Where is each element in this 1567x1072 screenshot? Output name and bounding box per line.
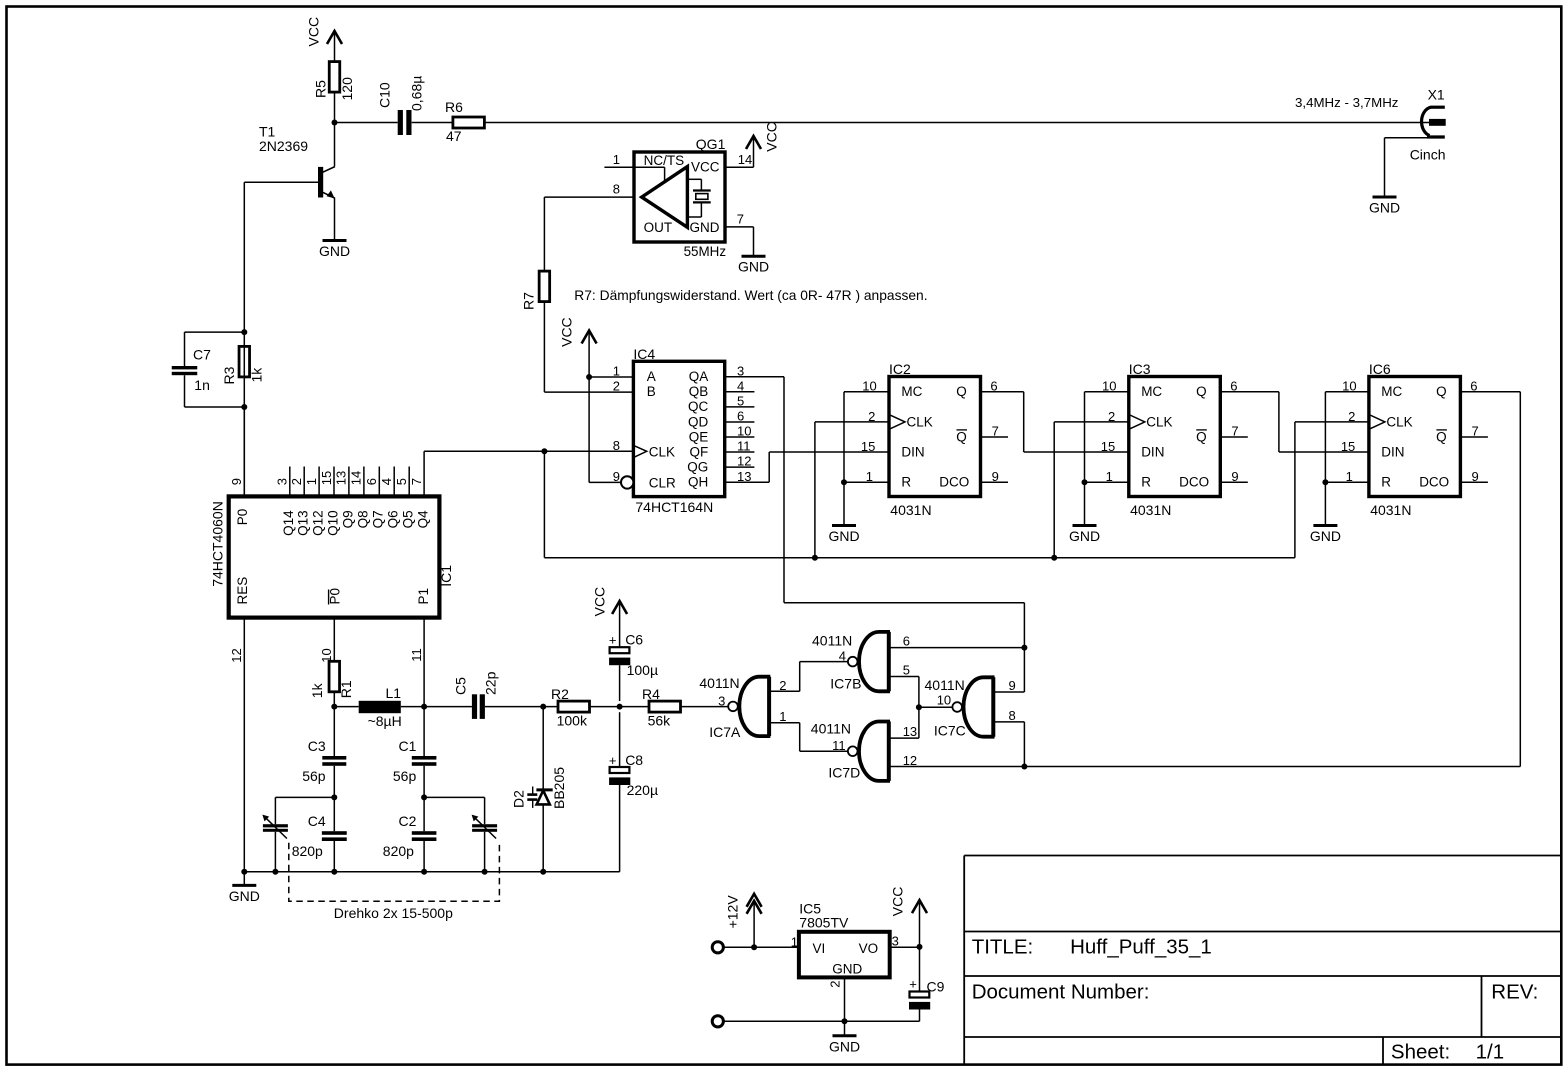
svg-text:1: 1 [1346, 469, 1353, 484]
svg-text:C9: C9 [927, 979, 945, 995]
svg-text:QF: QF [690, 444, 709, 459]
svg-text:IC7A: IC7A [709, 724, 741, 740]
svg-text:R5: R5 [313, 80, 329, 98]
svg-text:CLK: CLK [907, 414, 933, 429]
svg-text:IC3: IC3 [1129, 361, 1151, 377]
svg-text:GND: GND [1310, 528, 1341, 544]
svg-text:R3: R3 [221, 366, 237, 384]
svg-text:1: 1 [866, 469, 873, 484]
svg-text:10: 10 [1102, 379, 1116, 394]
svg-text:2: 2 [779, 678, 786, 693]
svg-text:Q: Q [1436, 384, 1447, 399]
svg-text:13: 13 [737, 469, 751, 484]
svg-text:1k: 1k [309, 682, 325, 698]
svg-text:10: 10 [937, 692, 951, 707]
svg-text:13: 13 [903, 724, 917, 739]
svg-text:REV:: REV: [1491, 981, 1538, 1004]
svg-text:GND: GND [828, 528, 859, 544]
svg-text:R4: R4 [642, 686, 660, 702]
svg-text:Huff_Puff_35_1: Huff_Puff_35_1 [1070, 936, 1212, 959]
svg-text:4: 4 [379, 478, 394, 485]
svg-text:6: 6 [737, 409, 744, 424]
svg-text:VCC: VCC [764, 122, 780, 152]
svg-text:12: 12 [737, 454, 751, 469]
svg-text:C1: C1 [399, 738, 417, 754]
svg-text:IC7D: IC7D [828, 764, 860, 780]
svg-text:R2: R2 [551, 686, 569, 702]
svg-text:VCC: VCC [559, 317, 575, 347]
svg-text:3,4MHz - 3,7MHz: 3,4MHz - 3,7MHz [1295, 95, 1398, 110]
svg-text:2: 2 [289, 478, 304, 485]
svg-text:10: 10 [862, 379, 876, 394]
svg-text:4: 4 [839, 648, 846, 663]
svg-text:9: 9 [613, 469, 620, 484]
svg-text:120: 120 [339, 77, 355, 101]
svg-text:4011N: 4011N [812, 633, 852, 649]
svg-text:1: 1 [304, 478, 319, 485]
svg-text:BB205: BB205 [551, 767, 567, 809]
svg-text:4011N: 4011N [811, 721, 851, 737]
svg-text:12: 12 [229, 648, 244, 662]
svg-text:QB: QB [689, 384, 709, 399]
svg-text:2: 2 [613, 379, 620, 394]
svg-text:Document Number:: Document Number: [972, 981, 1150, 1004]
svg-text:15: 15 [319, 471, 334, 485]
svg-text:4011N: 4011N [925, 677, 965, 693]
svg-text:5: 5 [903, 662, 910, 677]
svg-text:3: 3 [718, 694, 725, 709]
svg-text:QA: QA [689, 369, 709, 384]
svg-text:DIN: DIN [901, 444, 924, 459]
svg-text:GND: GND [1369, 200, 1400, 216]
svg-text:1: 1 [791, 934, 798, 949]
svg-text:0,68µ: 0,68µ [409, 76, 425, 111]
svg-text:C5: C5 [453, 677, 469, 695]
svg-text:7: 7 [409, 478, 424, 485]
svg-text:IC2: IC2 [889, 361, 911, 377]
svg-text:Q: Q [956, 384, 967, 399]
svg-text:R7: R7 [521, 292, 537, 310]
svg-text:10: 10 [737, 424, 751, 439]
svg-text:8: 8 [613, 182, 620, 197]
svg-text:Drehko 2x 15-500p: Drehko 2x 15-500p [334, 905, 453, 921]
svg-text:C6: C6 [625, 631, 643, 647]
svg-text:Q6: Q6 [386, 510, 401, 528]
svg-text:3: 3 [892, 933, 899, 948]
svg-text:Q9: Q9 [340, 510, 355, 528]
svg-text:GND: GND [829, 1038, 860, 1054]
svg-text:2: 2 [828, 980, 843, 987]
svg-text:P1: P1 [416, 588, 431, 605]
svg-text:Q12: Q12 [311, 510, 326, 536]
svg-text:C2: C2 [399, 813, 417, 829]
svg-text:VCC: VCC [691, 159, 720, 174]
svg-text:Q: Q [1196, 429, 1207, 444]
svg-text:6: 6 [903, 633, 910, 648]
svg-text:VCC: VCC [306, 17, 322, 47]
svg-text:1n: 1n [194, 377, 210, 393]
svg-text:NC/TS: NC/TS [644, 153, 685, 168]
svg-text:IC7C: IC7C [934, 722, 966, 738]
svg-text:22p: 22p [483, 671, 499, 695]
svg-text:B: B [647, 384, 656, 399]
svg-text:100µ: 100µ [627, 662, 658, 678]
svg-text:Q: Q [956, 429, 967, 444]
svg-text:6: 6 [364, 478, 379, 485]
svg-text:11: 11 [409, 648, 424, 662]
svg-text:X1: X1 [1428, 87, 1445, 103]
svg-text:IC4: IC4 [633, 346, 655, 362]
svg-text:1: 1 [613, 364, 620, 379]
svg-text:Q13: Q13 [296, 510, 311, 536]
svg-text:GND: GND [832, 962, 862, 977]
svg-text:CLK: CLK [1386, 414, 1412, 429]
svg-text:100k: 100k [557, 713, 588, 729]
svg-text:CLK: CLK [1146, 414, 1172, 429]
svg-text:VCC: VCC [890, 887, 906, 917]
svg-text:D2: D2 [511, 790, 527, 808]
svg-text:Sheet:: Sheet: [1391, 1041, 1450, 1064]
svg-text:5: 5 [394, 478, 409, 485]
svg-text:55MHz: 55MHz [684, 244, 727, 259]
svg-text:A: A [647, 369, 656, 384]
svg-text:56k: 56k [648, 713, 672, 729]
svg-text:Q7: Q7 [371, 510, 386, 528]
svg-text:GND: GND [1069, 528, 1100, 544]
svg-text:1: 1 [613, 152, 620, 167]
svg-text:74HCT4060N: 74HCT4060N [210, 501, 226, 587]
svg-text:R: R [1381, 475, 1391, 490]
svg-text:Q: Q [1436, 429, 1447, 444]
svg-text:GND: GND [229, 888, 260, 904]
svg-text:R: R [901, 475, 911, 490]
svg-text:VCC: VCC [592, 587, 608, 617]
svg-text:Q: Q [1196, 384, 1207, 399]
svg-text:~8µH: ~8µH [368, 713, 402, 729]
svg-text:11: 11 [737, 439, 751, 454]
svg-text:QC: QC [688, 399, 709, 414]
svg-text:R1: R1 [338, 680, 354, 698]
svg-text:QG1: QG1 [696, 136, 726, 152]
svg-text:10: 10 [1342, 379, 1356, 394]
svg-text:DIN: DIN [1381, 444, 1404, 459]
svg-text:9: 9 [1009, 678, 1016, 693]
svg-text:3: 3 [275, 478, 290, 485]
svg-text:C7: C7 [193, 347, 211, 363]
svg-text:MC: MC [1141, 384, 1162, 399]
svg-text:GND: GND [319, 243, 350, 259]
svg-text:MC: MC [1381, 384, 1402, 399]
svg-text:820p: 820p [383, 843, 414, 859]
svg-text:QE: QE [689, 429, 709, 444]
svg-text:P0: P0 [328, 588, 343, 605]
svg-text:GND: GND [738, 259, 769, 275]
svg-text:VI: VI [813, 941, 826, 956]
svg-text:Q8: Q8 [355, 510, 370, 528]
svg-text:4031N: 4031N [1370, 502, 1411, 518]
svg-text:DCO: DCO [939, 475, 969, 490]
svg-text:47: 47 [446, 128, 462, 144]
svg-text:7805TV: 7805TV [799, 915, 849, 931]
svg-text:Q14: Q14 [281, 510, 296, 536]
svg-text:OUT: OUT [644, 220, 673, 235]
svg-text:VO: VO [859, 941, 879, 956]
svg-text:+: + [909, 977, 917, 992]
svg-text:3: 3 [737, 363, 744, 378]
svg-text:4031N: 4031N [890, 502, 931, 518]
svg-text:IC6: IC6 [1369, 361, 1391, 377]
svg-text:+: + [609, 753, 617, 768]
svg-text:MC: MC [901, 384, 922, 399]
svg-text:C3: C3 [308, 738, 326, 754]
svg-text:2: 2 [1348, 409, 1355, 424]
svg-text:1k: 1k [249, 367, 265, 383]
svg-text:2N2369: 2N2369 [259, 138, 308, 154]
svg-text:2: 2 [1108, 409, 1115, 424]
svg-text:4011N: 4011N [699, 675, 739, 691]
svg-text:DCO: DCO [1179, 475, 1209, 490]
svg-text:Q4: Q4 [416, 510, 431, 529]
svg-text:R: R [1141, 475, 1151, 490]
svg-text:QG: QG [687, 459, 708, 474]
svg-text:IC7B: IC7B [830, 676, 861, 692]
svg-text:QH: QH [688, 475, 708, 490]
svg-text:4: 4 [737, 378, 744, 393]
svg-text:820p: 820p [292, 843, 323, 859]
svg-text:1: 1 [1106, 469, 1113, 484]
svg-text:5: 5 [737, 394, 744, 409]
svg-text:+12V: +12V [725, 895, 741, 929]
svg-text:R7: Dämpfungswiderstand. Wert: R7: Dämpfungswiderstand. Wert (ca 0R- 47… [574, 288, 927, 303]
svg-text:14: 14 [349, 471, 364, 485]
svg-text:11: 11 [832, 738, 846, 753]
svg-text:1: 1 [779, 709, 786, 724]
svg-text:Q5: Q5 [401, 510, 416, 528]
svg-text:IC1: IC1 [438, 565, 454, 587]
svg-text:TITLE:: TITLE: [972, 936, 1034, 959]
svg-text:CLR: CLR [649, 476, 676, 491]
svg-text:C10: C10 [377, 82, 393, 108]
svg-text:56p: 56p [393, 768, 417, 784]
svg-text:8: 8 [613, 438, 620, 453]
svg-text:C4: C4 [308, 813, 326, 829]
svg-text:Cinch: Cinch [1410, 147, 1446, 163]
svg-text:74HCT164N: 74HCT164N [635, 499, 713, 515]
svg-text:DIN: DIN [1141, 444, 1164, 459]
svg-text:QD: QD [688, 414, 709, 429]
svg-text:1/1: 1/1 [1476, 1041, 1505, 1064]
svg-text:15: 15 [861, 439, 875, 454]
svg-text:+: + [609, 632, 617, 647]
svg-text:P0: P0 [235, 509, 250, 526]
svg-text:14: 14 [738, 152, 752, 167]
svg-text:4031N: 4031N [1130, 502, 1171, 518]
svg-text:13: 13 [334, 471, 349, 485]
svg-text:R6: R6 [445, 99, 463, 115]
svg-text:220µ: 220µ [627, 782, 658, 798]
svg-text:56p: 56p [302, 768, 326, 784]
svg-text:Q10: Q10 [325, 510, 340, 536]
svg-text:DCO: DCO [1419, 475, 1449, 490]
svg-text:9: 9 [229, 478, 244, 485]
svg-text:12: 12 [903, 753, 917, 768]
svg-text:L1: L1 [386, 685, 402, 701]
svg-text:CLK: CLK [649, 445, 675, 460]
svg-text:8: 8 [1009, 708, 1016, 723]
svg-text:GND: GND [690, 220, 720, 235]
svg-text:2: 2 [868, 409, 875, 424]
svg-text:C8: C8 [625, 752, 643, 768]
svg-text:RES: RES [235, 577, 250, 605]
svg-text:7: 7 [737, 212, 744, 227]
